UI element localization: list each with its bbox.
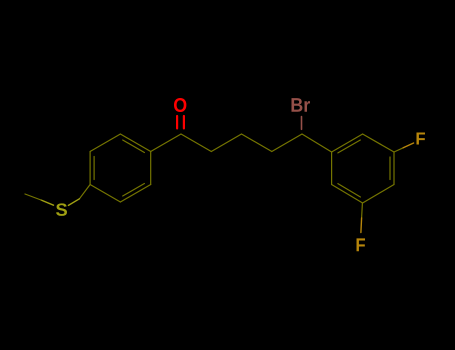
right ring double v5-v6 inner	[338, 184, 361, 197]
right ring edge v2-v3	[363, 134, 394, 152]
left ring edge w4-w5	[90, 185, 120, 203]
bond S-CH3 sulfur half	[41, 200, 54, 205]
left ring edge w2-w3	[90, 134, 120, 152]
left ring edge w5-w6	[120, 185, 150, 203]
bond v3-F top carbon half	[394, 148, 403, 152]
right ring double v3-v4 inner	[389, 157, 391, 180]
left ring edge w1-w2	[120, 134, 150, 152]
carbonyl O label	[174, 98, 186, 112]
bond v3-F top fluorine half	[403, 143, 413, 148]
right ring edge v6-v1	[331, 152, 333, 185]
wire C4-C5	[272, 134, 302, 152]
Br label r	[304, 101, 310, 112]
wire C1-left ring	[151, 134, 181, 152]
F bottom label	[357, 238, 365, 251]
S label	[56, 203, 67, 216]
left ring double w1-w2 inner	[123, 140, 145, 153]
bond v5-F bottom fluorine half	[360, 218, 363, 233]
left ring double w3-w4 inner	[93, 157, 95, 180]
left ring double w5-w6 inner	[123, 184, 145, 197]
bond ring w4-S sulfur half	[68, 199, 79, 206]
F top label	[417, 133, 425, 145]
right ring edge v4-v5	[363, 185, 394, 204]
bond v5-F bottom carbon half	[361, 203, 364, 218]
wire C1-C2	[181, 134, 211, 152]
C5-Br bond	[301, 117, 303, 130]
bond ring w4-S carbon half	[79, 185, 90, 199]
left ring edge w3-w4	[89, 152, 91, 185]
C=O double bond	[176, 116, 178, 128]
bond S-CH3 carbon half (methyl)	[25, 194, 41, 200]
wire C5-ring	[302, 134, 332, 152]
left ring edge w6-w1	[150, 152, 152, 185]
right ring edge v3-v4	[393, 152, 395, 185]
wire C2-C3	[211, 134, 241, 152]
right ring edge v5-v6	[332, 185, 363, 204]
right ring double v1-v2 inner	[338, 140, 360, 153]
wire C3-C4	[242, 134, 272, 152]
right ring edge v1-v2	[332, 134, 363, 152]
Br label	[292, 98, 303, 112]
